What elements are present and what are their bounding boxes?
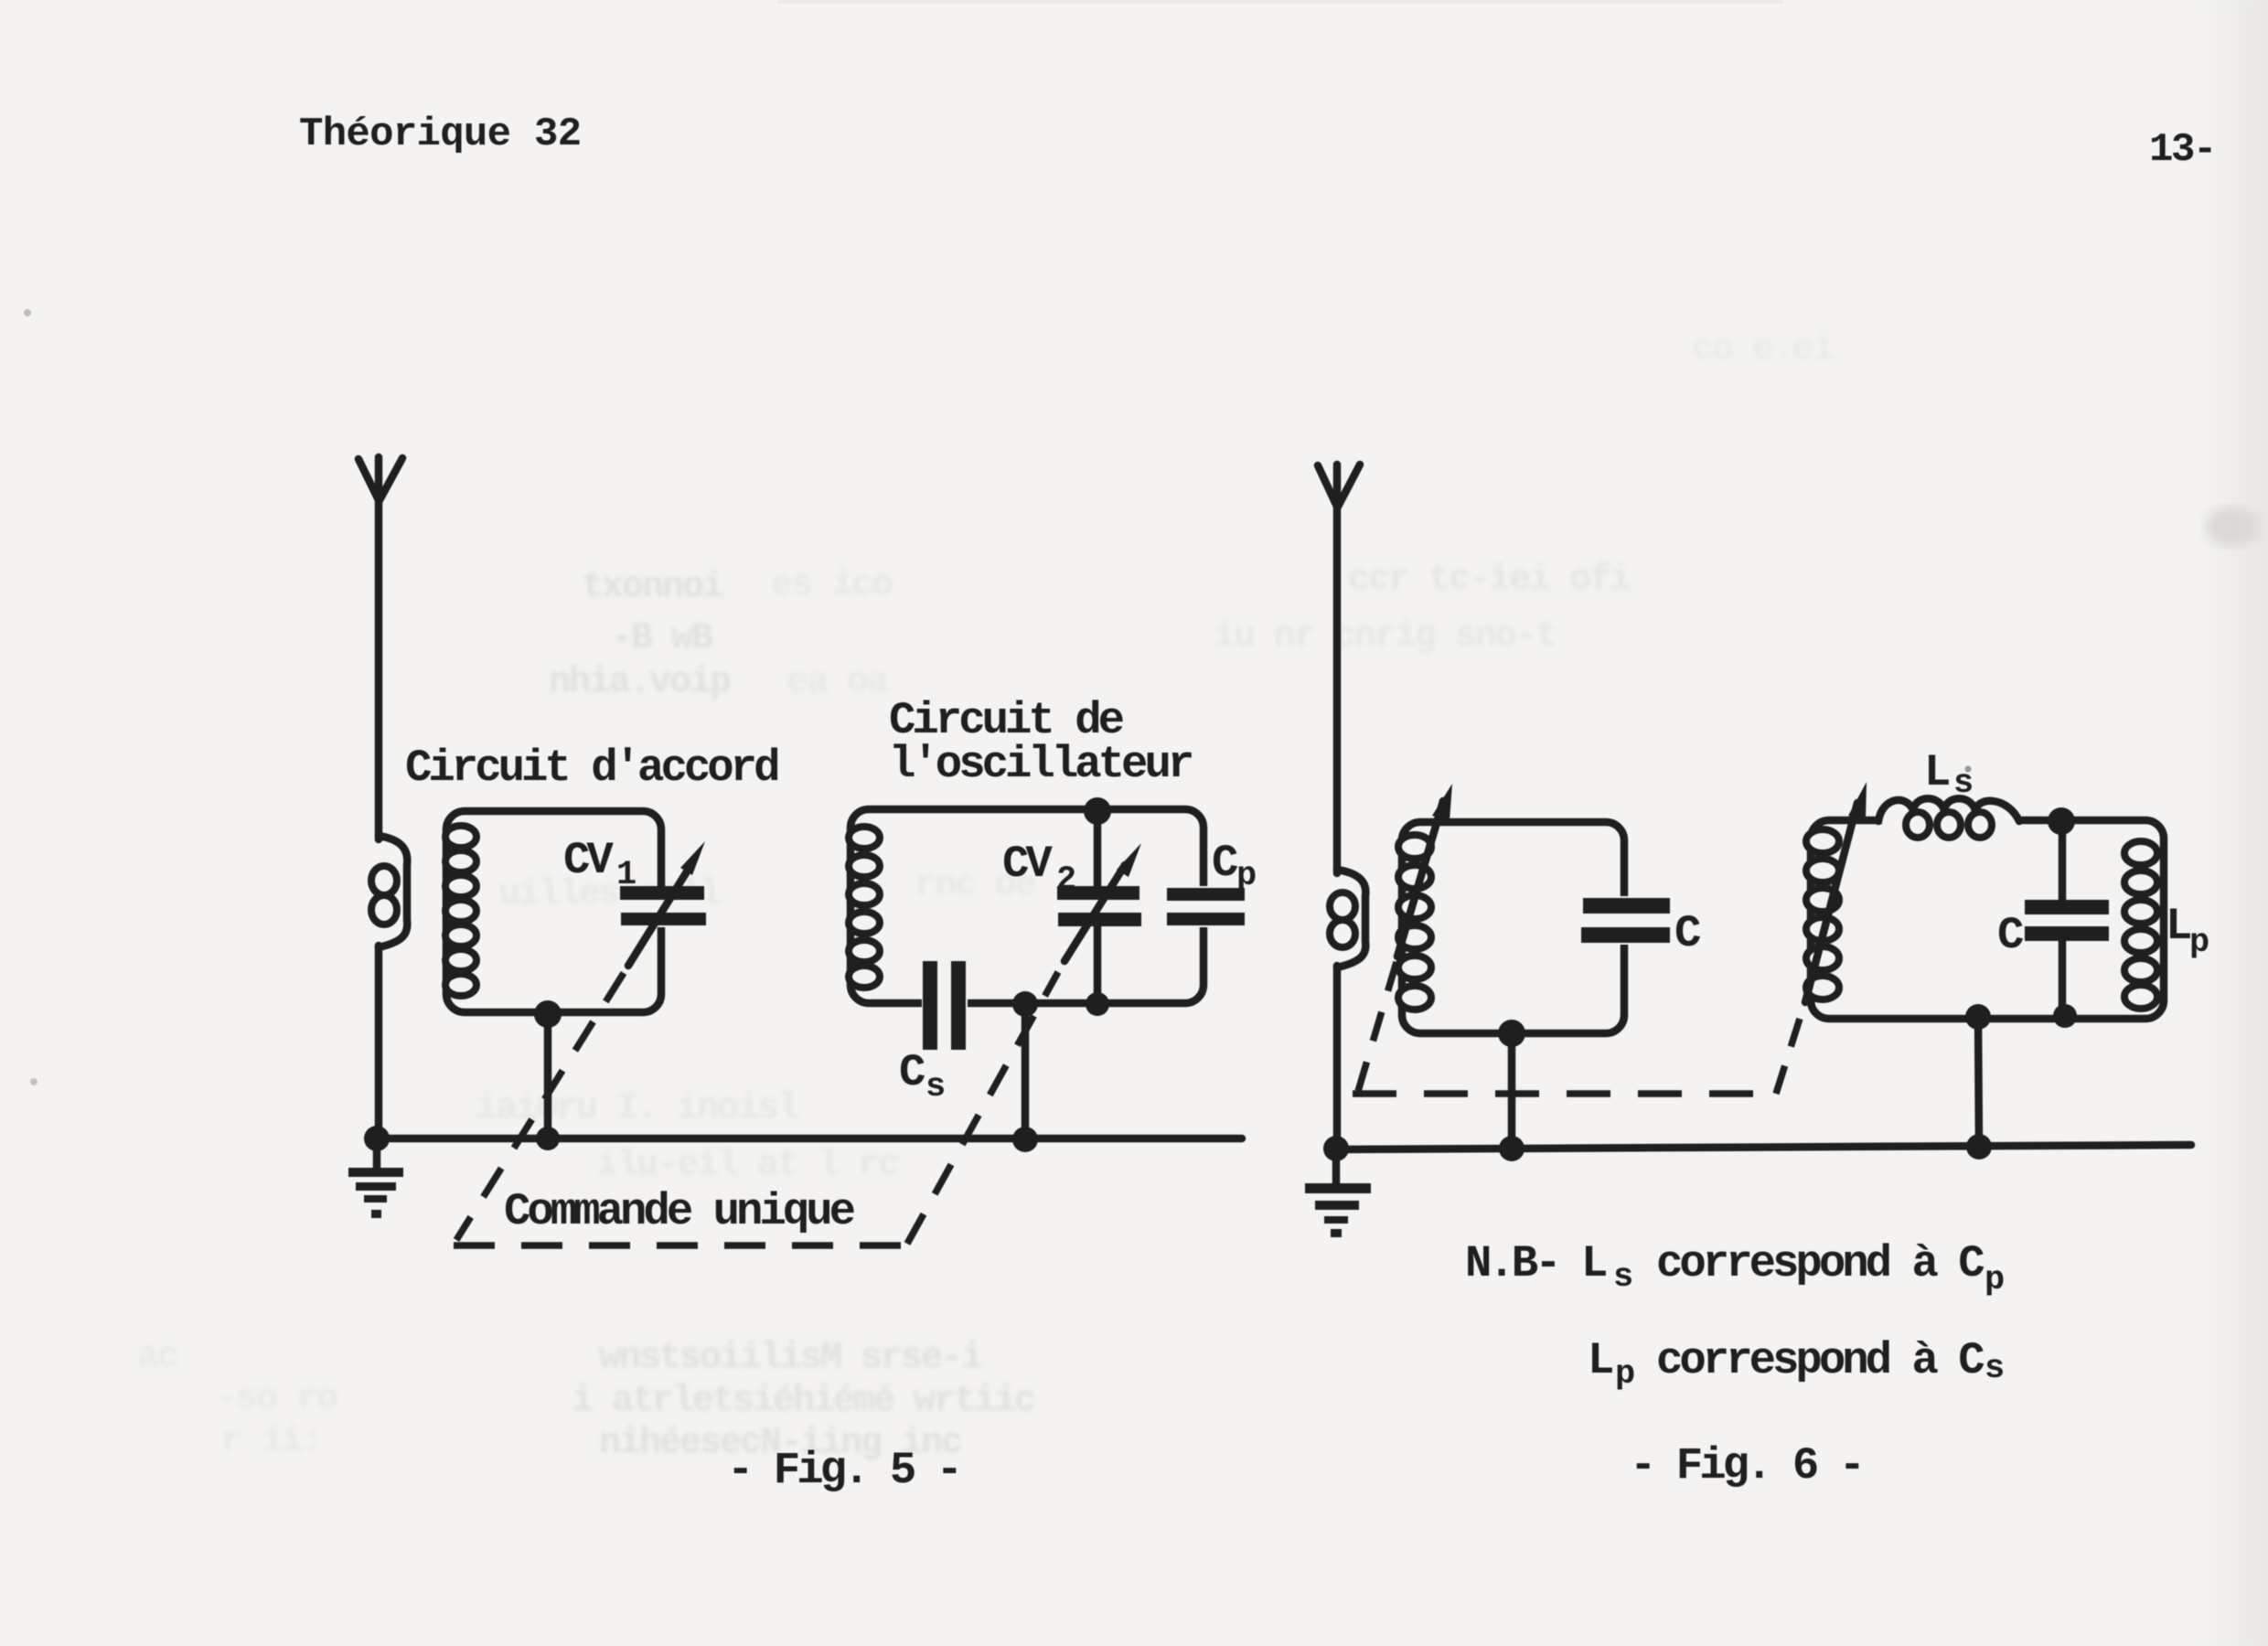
wire: box1 to bus: [544, 1014, 552, 1138]
svg-text:l'oscillateur: l'oscillateur: [889, 739, 1192, 790]
tank box: Circuit de l'oscillateur L3: [850, 809, 1204, 1003]
antenna ANT1: [358, 457, 402, 839]
svg-text:ac: ac: [137, 1337, 177, 1378]
wire: box4 to bus: [1978, 1017, 1979, 1147]
svg-text:ccr tc-iei ofi: ccr tc-iei ofi: [1348, 560, 1631, 601]
svg-text:-B wB: -B wB: [611, 618, 713, 659]
svg-text:C: C: [1997, 910, 2024, 961]
svg-text:Théorique 32: Théorique 32: [299, 112, 581, 157]
tank box: Circuit d'accord L2: [446, 811, 661, 1012]
node: bus / antenna junction: [1323, 1136, 1349, 1161]
node: bus / antenna junction: [364, 1126, 390, 1151]
svg-text:s: s: [1613, 1258, 1631, 1297]
node: box4 bottom junction (C branch): [2053, 1004, 2077, 1028]
capacitor C (right side of box 3): [1579, 896, 1672, 945]
svg-text:- Fig. 6 -: - Fig. 6 -: [1630, 1440, 1862, 1491]
svg-text:txonnoi: txonnoi: [582, 567, 723, 608]
svg-text:wnstsoiilisM srse-i: wnstsoiilisM srse-i: [599, 1338, 982, 1379]
ground symbol (Fig.5): [348, 1138, 403, 1218]
wire: antenna lead down to ground bus: [1333, 966, 1342, 1149]
ganged-control dashed link, CV1 branch: [456, 973, 624, 1240]
svg-text:ea oa: ea oa: [786, 662, 889, 703]
node: box2 bottom junction (CV2): [1086, 992, 1109, 1016]
tank box 4 (Fig.6 right): [1811, 820, 2164, 1019]
svg-text:13-: 13-: [2149, 127, 2215, 173]
node: bus junction under box3: [1499, 1136, 1524, 1161]
svg-text:r ii:: r ii:: [221, 1421, 322, 1462]
svg-text:C: C: [1212, 838, 1238, 889]
svg-text:Commande unique: Commande unique: [504, 1186, 855, 1237]
svg-text:p: p: [1984, 1261, 2004, 1299]
wire: box3 to bus: [1508, 1033, 1516, 1149]
capacitor C (middle of box 4): [2025, 821, 2109, 1017]
svg-text:-so ro: -so ro: [216, 1379, 337, 1420]
variable capacitor CV2: [1057, 811, 1141, 1003]
node: box4 bottom junction (to bus): [1965, 1004, 1991, 1030]
padding capacitor Cp (on right side of box 2): [1165, 886, 1246, 927]
ganged-control dashed link (Fig.6), box4 branch: [1776, 1004, 1804, 1094]
svg-text:CV: CV: [563, 835, 614, 886]
ganged-control dashed link (Fig.6), box3 branch: [1356, 962, 1396, 1097]
svg-text:s: s: [1953, 764, 1972, 803]
arrow of variable coil (box 4): [1805, 782, 1867, 1002]
node: box4 top junction: [2048, 807, 2075, 835]
svg-text:p: p: [1236, 857, 1256, 895]
ganged-control dashed link, CV2 branch: [907, 972, 1058, 1244]
svg-text:L: L: [1924, 747, 1949, 798]
svg-text:Circuit d'accord: Circuit d'accord: [405, 743, 778, 794]
svg-text:L: L: [2166, 901, 2190, 952]
svg-text:- Fig. 5 -: - Fig. 5 -: [727, 1445, 959, 1496]
tank box 3 (Fig.6 left): [1402, 822, 1624, 1033]
svg-text:C: C: [1674, 908, 1701, 959]
svg-text:es ico: es ico: [771, 565, 893, 606]
antenna coupling coil L1 (primary on antenna lead): [371, 836, 407, 947]
svg-text:co e.ei: co e.ei: [1692, 329, 1834, 370]
svg-text:iaiOru I. inoisl: iaiOru I. inoisl: [476, 1088, 798, 1129]
node: box1 bottom junction: [534, 1000, 562, 1028]
coil L3 (left side of box 2): [849, 827, 880, 988]
ground bus (Fig.5): [375, 1135, 1242, 1143]
node: bus junction under box2: [1012, 1127, 1038, 1152]
svg-text:CV: CV: [1002, 839, 1053, 890]
variable coil of box 3 (left side): [1398, 835, 1431, 1010]
coil L2 (left side of box 1): [445, 826, 476, 996]
arrow of CV2: [1064, 843, 1141, 961]
ground symbol (Fig.6): [1305, 1149, 1371, 1237]
svg-text:correspond à C: correspond à C: [1656, 1335, 1984, 1386]
scanner smudge: [2206, 507, 2261, 547]
node: bus junction under box4: [1966, 1134, 1992, 1160]
series capacitor Cs (in bottom side of box 2): [922, 961, 968, 1050]
svg-text:C: C: [899, 1047, 925, 1098]
node: bus junction under box1: [536, 1127, 560, 1150]
antenna coupling coil L4 (primary on antenna lead): [1330, 870, 1365, 967]
svg-text:ilu-eil at l rc: ilu-eil at l rc: [596, 1145, 898, 1186]
svg-text:L: L: [1588, 1335, 1612, 1386]
svg-text:s: s: [925, 1068, 944, 1106]
svg-text:iu nr cnrig sno-t: iu nr cnrig sno-t: [1214, 616, 1556, 657]
variable capacitor CV1 (in right side of box 1): [618, 886, 706, 927]
wire: antenna lead down to ground bus: [375, 946, 383, 1139]
antenna ANT2: [1318, 465, 1360, 873]
svg-text:correspond à C: correspond à C: [1656, 1238, 1984, 1289]
svg-text:s: s: [1984, 1350, 2003, 1388]
node: box2 top junction: [1084, 797, 1111, 825]
svg-text:2: 2: [1056, 861, 1075, 900]
svg-text:nhia.voip: nhia.voip: [549, 662, 731, 703]
ground bus (Fig.6): [1333, 1145, 2191, 1149]
wire: box2 to bus: [1022, 1004, 1030, 1139]
svg-text:p: p: [2189, 924, 2209, 962]
shunt coil Lp (right side of box 4): [2124, 841, 2157, 1009]
ganged-control dashed link (Fig.6), horizontal run: [1353, 1090, 1776, 1097]
series coil Ls (top side of box 4): [1878, 798, 2021, 838]
svg-text:N.B- L: N.B- L: [1465, 1238, 1606, 1289]
svg-text:p: p: [1615, 1355, 1634, 1394]
svg-text:1: 1: [616, 856, 636, 894]
node: box3 bottom junction: [1498, 1020, 1525, 1047]
ganged-control dashed link, horizontal run: [454, 1242, 905, 1249]
node: box2 bottom junction (to bus): [1012, 991, 1038, 1017]
arrow of variable coil (box 3): [1397, 784, 1452, 957]
svg-text:i atrletsiéhiémé wrtiic: i atrletsiéhiémé wrtiic: [572, 1381, 1034, 1422]
variable coil of box 4 (left side): [1806, 829, 1839, 999]
arrow of CV1: [628, 841, 705, 966]
